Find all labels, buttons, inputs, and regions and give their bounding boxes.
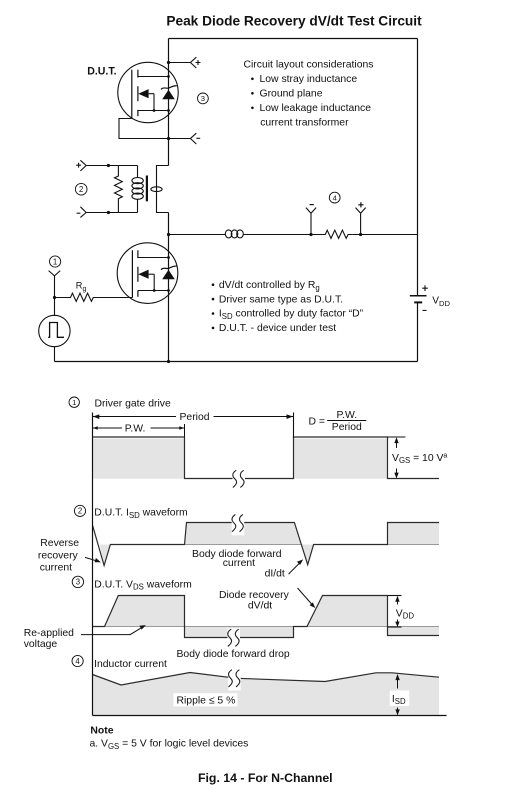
label D.U.T. (87, 66, 116, 78)
dimension pulse width (93, 423, 185, 437)
svg-text:2: 2 (79, 185, 83, 194)
waveform 3 trace (93, 596, 440, 638)
waveform 4 fill (93, 673, 440, 716)
svg-text:3: 3 (201, 94, 205, 103)
text duty factor formula (309, 410, 367, 433)
title (166, 14, 422, 29)
svg-text:Period: Period (332, 422, 362, 433)
callout arrow dI/dt (289, 559, 304, 574)
svg-text:dV/dt controlled by Rg: dV/dt controlled by Rg (219, 280, 320, 292)
mosfet M2 gate line (131, 250, 133, 297)
svg-text:VDD: VDD (396, 608, 415, 620)
svg-text:1: 1 (72, 398, 76, 407)
mosfet M2 body diode (161, 266, 177, 279)
label circled 2 waveform (74, 505, 85, 516)
mosfet M1 gate line (131, 70, 133, 119)
waveform 4 trace (93, 673, 440, 686)
waveform 1 gate pulse trace (93, 437, 440, 479)
label circled 1 (50, 256, 61, 267)
svg-text:4: 4 (333, 193, 337, 202)
mosfet M2 source link (138, 289, 170, 292)
svg-text:ISD controlled by duty factor: ISD controlled by duty factor “D” (219, 309, 364, 321)
dimension period (93, 412, 294, 438)
text driver gate drive (95, 398, 171, 409)
text ripple (174, 693, 238, 706)
node load branch junction (167, 233, 170, 236)
svg-text:D.U.T. VDS waveform: D.U.T. VDS waveform (94, 579, 191, 591)
svg-text:recovery: recovery (38, 550, 79, 561)
svg-text:Fig. 14 - For N-Channel: Fig. 14 - For N-Channel (198, 771, 333, 785)
transformer T1 primary winding (132, 166, 143, 213)
text figure caption (198, 771, 333, 785)
mosfet M2 driver circle (117, 243, 178, 304)
svg-text:Note: Note (90, 725, 113, 736)
wire main vertical bus lower (168, 213, 170, 362)
waveform 3 zero edge (105, 626, 440, 628)
svg-text:Period: Period (180, 412, 210, 423)
svg-text:Ground plane: Ground plane (260, 88, 323, 99)
transformer T1 core (146, 176, 148, 202)
waveform 2 trace (93, 523, 440, 566)
label circled 4 waveform (72, 655, 83, 666)
break mark waveform 4 (228, 669, 241, 691)
waveform 3 fill (105, 596, 440, 638)
mosfet M2 substrate arrow (138, 270, 155, 292)
svg-text:dV/dt: dV/dt (248, 601, 272, 612)
svg-text:Reverse: Reverse (40, 538, 79, 549)
text inductor current (94, 659, 167, 670)
svg-text:1: 1 (53, 257, 57, 266)
svg-text:3: 3 (76, 578, 80, 587)
transformer T1 secondary turn (151, 187, 162, 192)
inductor L1 (225, 230, 243, 238)
svg-text:current: current (223, 558, 255, 569)
break mark waveform 1 (233, 470, 246, 492)
resistor shunt R (324, 230, 353, 238)
text circuit layout considerations (244, 59, 374, 128)
node sense - terminal (77, 207, 87, 218)
text re-applied voltage (24, 628, 74, 650)
wire right rail lower (417, 302, 419, 361)
resistor Rg (53, 281, 132, 302)
waveform 2 fill (100, 523, 439, 566)
wire transformer top (86, 164, 137, 167)
label circled 4 (329, 192, 340, 203)
svg-text:Rg: Rg (76, 281, 87, 293)
waveform 1 gate pulse fill (93, 439, 388, 479)
label circled 1 waveform (69, 397, 79, 407)
pulse generator V1 (39, 298, 70, 362)
svg-text:Low leakage inductance: Low leakage inductance (260, 103, 372, 114)
callout arrow dV/dt (298, 588, 316, 608)
node sense + terminal (76, 160, 86, 171)
waveform left boundary (92, 413, 94, 716)
resistor damping (transformer primary) (115, 166, 123, 213)
wire bottom rail (55, 361, 418, 363)
mosfet M1 channel segments (137, 70, 139, 117)
svg-text:Low stray inductance: Low stray inductance (260, 74, 358, 85)
svg-text:Ripple ≤ 5 %: Ripple ≤ 5 % (177, 695, 236, 706)
node shunt + terminal (356, 202, 366, 234)
node DUT drain sense + (167, 57, 201, 68)
node shunt - terminal (306, 205, 316, 235)
svg-text:a. VGS = 5 V for logic level d: a. VGS = 5 V for logic level devices (90, 739, 249, 751)
mosfet M2 drain link (138, 256, 170, 259)
mosfet M1 substrate arrow (138, 89, 155, 112)
svg-text:VDD: VDD (432, 296, 450, 309)
mosfet M1 D.U.T. circle (118, 62, 178, 122)
text body diode forward current (192, 549, 282, 569)
svg-text:D =: D = (309, 417, 325, 428)
svg-text:Inductor current: Inductor current (94, 659, 167, 670)
dimension ISD level (390, 674, 410, 716)
dimension VGS level (388, 437, 448, 479)
battery VDD (410, 285, 451, 310)
junction bottom rail / drain bus (167, 360, 170, 363)
wire right rail upper (417, 39, 419, 296)
svg-text:2: 2 (78, 507, 82, 516)
label circled 3 (198, 93, 209, 104)
text DUT VDS waveform (94, 579, 191, 591)
text DUT ISD waveform (94, 508, 187, 520)
mosfet M1 source link (138, 109, 170, 112)
svg-text:VGS = 10 Va: VGS = 10 Va (392, 453, 447, 466)
svg-text:current: current (40, 562, 72, 573)
svg-text:Peak Diode Recovery dV/dt Test: Peak Diode Recovery dV/dt Test Circuit (166, 14, 422, 29)
text circuit notes (212, 280, 364, 334)
svg-text:dI/dt: dI/dt (265, 568, 285, 579)
svg-text:Re-applied: Re-applied (24, 628, 74, 639)
svg-text:Circuit layout considerations: Circuit layout considerations (244, 59, 374, 70)
wire transformer bottom (86, 211, 137, 214)
label circled 2 (75, 183, 87, 195)
svg-text:current transformer: current transformer (260, 117, 349, 128)
break mark waveform 2 (232, 514, 245, 536)
svg-text:D.U.T.: D.U.T. (87, 66, 116, 78)
break mark waveform 3 (228, 629, 241, 651)
mosfet M2 channel segments (137, 250, 139, 296)
svg-text:Body diode forward drop: Body diode forward drop (177, 649, 290, 660)
svg-text:Driver same type as D.U.T.: Driver same type as D.U.T. (219, 294, 343, 305)
callout arrow re-applied (81, 625, 146, 635)
node DUT source sense - (169, 133, 201, 144)
wire top rail (169, 38, 418, 40)
wire load branch right (352, 233, 417, 236)
node gate drive terminal 1 (49, 271, 61, 298)
svg-text:P.W.: P.W. (125, 423, 146, 434)
callout arrow reverse recovery (85, 557, 101, 562)
waveform 2 zero edge (185, 544, 440, 546)
svg-text:Driver gate drive: Driver gate drive (95, 398, 171, 409)
dimension VDD level (388, 596, 414, 628)
svg-text:4: 4 (75, 657, 80, 666)
svg-text:D.U.T. - device under test: D.U.T. - device under test (219, 323, 336, 334)
svg-text:P.W.: P.W. (336, 410, 357, 421)
label circled 3 waveform (72, 576, 83, 587)
svg-text:voltage: voltage (24, 639, 58, 650)
svg-text:Diode recovery: Diode recovery (219, 590, 290, 601)
mosfet M1 body diode (161, 86, 177, 100)
waveform 4 baseline (93, 715, 447, 717)
wire M1 gate-source short (119, 119, 170, 141)
text dI/dt (265, 568, 285, 579)
wire load branch middle (243, 233, 323, 236)
wire load branch left (169, 234, 226, 236)
text reverse recovery current (38, 538, 79, 573)
svg-text:D.U.T. ISD waveform: D.U.T. ISD waveform (94, 508, 187, 520)
wire current-sense loop jog (157, 166, 169, 213)
wire main vertical bus upper (168, 39, 170, 166)
mosfet M1 drain link (138, 75, 170, 78)
text diode recovery dV/dt (219, 590, 290, 612)
text note (90, 725, 249, 751)
text body diode forward drop (177, 649, 290, 660)
